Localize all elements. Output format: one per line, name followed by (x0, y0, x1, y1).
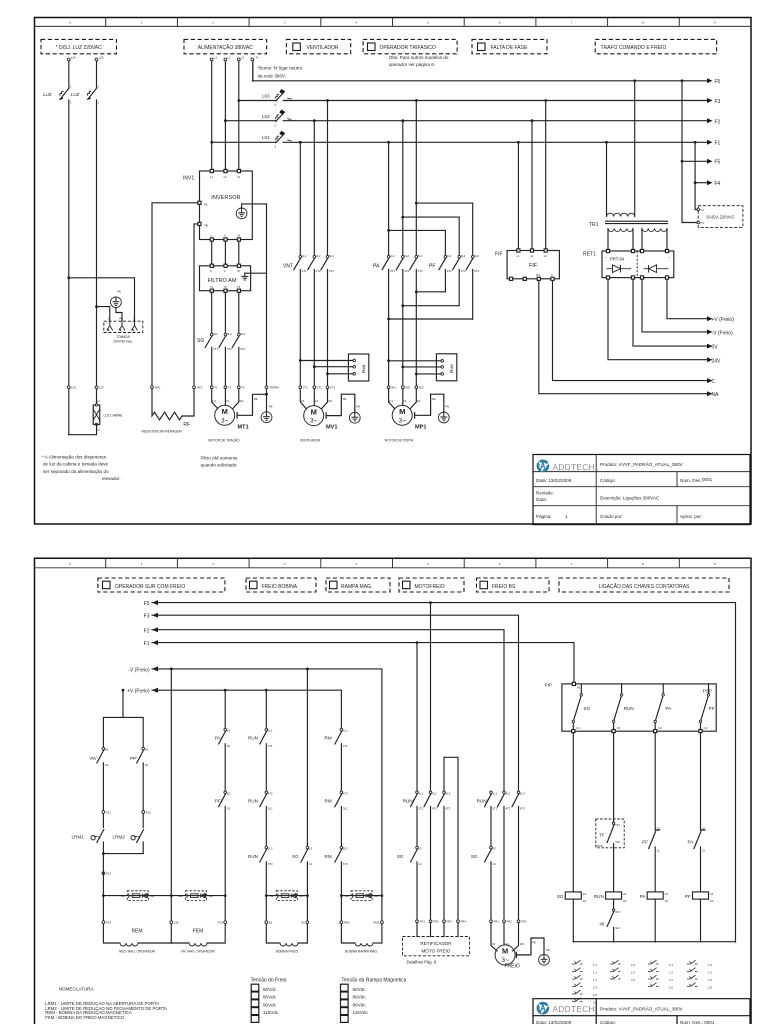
svg-text:-: - (630, 256, 631, 260)
earth at filter (241, 273, 248, 280)
svg-text:RESISTENCIA FRENAGEM: RESISTENCIA FRENAGEM (142, 430, 182, 434)
svg-text:*Borne 'N' ligar neutro: *Borne 'N' ligar neutro (258, 66, 303, 71)
svg-text:TF1: TF1 (615, 823, 620, 827)
terminal T1 (210, 386, 213, 389)
PA pole 3 (410, 101, 417, 386)
svg-text:FREIO: FREIO (505, 964, 520, 970)
pin L1 (210, 169, 213, 172)
svg-text:5L3: 5L3 (520, 791, 525, 795)
terminal FR1 (freio bs) (490, 920, 493, 923)
svg-text:3L2: 3L2 (316, 254, 321, 258)
MP1 PE link (415, 394, 444, 418)
svg-text:P13: P13 (106, 872, 111, 876)
svg-text:Descrição: Ligações 380VAC: Descrição: Ligações 380VAC (600, 496, 660, 501)
svg-text:W: W (237, 269, 240, 273)
svg-text:2T1: 2T1 (493, 807, 498, 811)
svg-text:1L1: 1L1 (268, 729, 273, 733)
arrow F5 (707, 78, 713, 83)
terminal RM1 (340, 921, 343, 924)
svg-text:90Vdc: 90Vdc (263, 1002, 277, 1007)
svg-text:40: 40 (599, 921, 605, 926)
svg-text:PP': PP' (130, 756, 137, 761)
svg-text:Produto: VVVF_PADRÃO_ATUAL_380: Produto: VVVF_PADRÃO_ATUAL_380V (600, 1006, 683, 1012)
svg-text:2.8: 2.8 (708, 986, 712, 990)
crossover PF3 to PA1 (387, 318, 390, 321)
svg-text:VENTILADOR: VENTILADOR (300, 438, 321, 442)
svg-text:4T2: 4T2 (316, 269, 321, 273)
svg-text:14: 14 (419, 862, 423, 866)
svg-text:quando solicitado.: quando solicitado. (201, 463, 238, 468)
svg-text:1: 1 (565, 514, 568, 519)
svg-text:SG: SG (292, 854, 299, 859)
relay FIF feeds (517, 141, 520, 144)
svg-text:6T3: 6T3 (329, 269, 334, 273)
svg-text:PA: PA (204, 203, 208, 207)
svg-text:VENTILADOR: VENTILADOR (307, 45, 339, 51)
svg-text:FALTA DE FASE: FALTA DE FASE (491, 45, 528, 51)
svg-text:Revisão:: Revisão: (536, 491, 554, 496)
svg-text:14: 14 (309, 862, 313, 866)
svg-text:MT1: MT1 (238, 424, 249, 430)
wire LUZ left down (68, 100, 70, 435)
svg-text:6T3: 6T3 (240, 347, 245, 351)
wire filter earth to TERRA rail (245, 272, 267, 274)
svg-text:301: 301 (391, 386, 396, 390)
dashed header box: DISJ. LUZ 220VAC (41, 39, 117, 53)
node MP tap2 (401, 366, 404, 369)
node PF pole1 branch (387, 229, 390, 232)
terminal TERRA (265, 386, 268, 389)
svg-text:FEM - BOBINA DO FREIO MAGNETIC: FEM - BOBINA DO FREIO MAGNETICO (45, 1015, 125, 1020)
svg-text:FREIO BOBINA: FREIO BOBINA (262, 584, 298, 590)
terminal 118 (170, 921, 173, 924)
svg-text:AZ: AZ (121, 894, 125, 898)
node -V to SG column (306, 668, 309, 671)
terminal 301 (387, 386, 390, 389)
svg-text:P12: P12 (146, 810, 151, 814)
ground MP1 (438, 412, 449, 423)
svg-text:F1: F1 (144, 641, 150, 647)
svg-text:INV1: INV1 (183, 176, 194, 182)
svg-text:ALIMENTAÇÃO 380VAC: ALIMENTAÇÃO 380VAC (198, 44, 253, 51)
wire down to coil bus (102, 854, 104, 896)
coil REM loop (103, 896, 120, 943)
terminal FR3 (443, 920, 446, 923)
ADDTECH logo p1 (538, 461, 548, 471)
svg-text:Detalhes Pág. 9: Detalhes Pág. 9 (407, 959, 437, 964)
svg-text:SG: SG (197, 338, 204, 344)
page 2 column index strip (35, 558, 752, 568)
terminal T3 (237, 386, 240, 389)
switch RUN in PIP (614, 684, 622, 730)
svg-text:A1: A1 (665, 892, 669, 896)
motor freio PE link (516, 938, 544, 958)
svg-text:PF: PF (709, 706, 715, 711)
svg-text:C3: C3 (658, 726, 662, 730)
wire branch to PF pole3 (416, 203, 472, 255)
node PPM tap 1 (299, 359, 302, 362)
svg-text:1.5: 1.5 (669, 978, 673, 982)
wire FIF NA out (539, 281, 707, 394)
svg-text:FIF: FIF (495, 252, 503, 258)
svg-text:T2: T2 (224, 285, 228, 289)
svg-text:2T1: 2T1 (447, 269, 452, 273)
svg-text:RET1: RET1 (583, 252, 596, 258)
svg-text:3L2: 3L2 (461, 254, 466, 258)
terminal B1 (265, 921, 268, 924)
svg-text:L3: L3 (241, 56, 245, 60)
wire split to PA' PP' (103, 690, 143, 747)
wire L1 down to inverter (211, 61, 213, 170)
svg-text:BOBINA FREIO: BOBINA FREIO (276, 950, 299, 954)
svg-text:RED. MAG. OPERADOR: RED. MAG. OPERADOR (119, 950, 155, 954)
svg-text:PF: PF (429, 264, 435, 270)
contact TF (612, 822, 614, 824)
svg-text:L26: L26 (71, 56, 76, 60)
wire to socket prong 1 (97, 307, 110, 322)
svg-text:RUN: RUN (624, 706, 634, 711)
wire +V down RUN column (265, 690, 267, 728)
svg-text:3L2: 3L2 (343, 807, 348, 811)
wire -V to coil mid (170, 668, 173, 671)
title block page 2 (533, 999, 750, 1024)
svg-text:TF2: TF2 (615, 840, 620, 844)
svg-text:SG: SG (397, 854, 404, 859)
svg-text:RM2: RM2 (373, 921, 379, 925)
ground MV1 (349, 412, 360, 423)
node F5 tap motofreio pole2 (429, 601, 432, 604)
node PPM tap 3 (326, 372, 329, 375)
svg-text:da rede 380V.: da rede 380V. (258, 74, 287, 79)
node +V to RUN column (265, 689, 268, 692)
dashed header box: VENTILADOR (286, 39, 350, 53)
svg-text:1L1: 1L1 (213, 332, 218, 336)
wire U to filter (211, 241, 213, 264)
terminal L2S (left) (67, 386, 70, 389)
svg-text:PE: PE (254, 397, 258, 401)
node VNT pole2 feed (313, 119, 316, 122)
svg-text:FR3: FR3 (521, 920, 527, 924)
coil FEM loop (171, 942, 189, 944)
SG pole 1 (205, 292, 212, 386)
VNT pole 2 (308, 121, 315, 386)
svg-text:4T2: 4T2 (615, 910, 620, 914)
wire 0V out (633, 279, 707, 346)
terminal L26 (right) (95, 58, 98, 61)
terminal P13 (102, 872, 105, 875)
svg-text:A1: A1 (583, 892, 587, 896)
svg-text:22: 22 (702, 827, 706, 831)
terminal 303 (415, 386, 418, 389)
svg-text:2.3: 2.3 (631, 963, 635, 967)
svg-text:5L3: 5L3 (329, 254, 334, 258)
svg-text:VNT: VNT (283, 264, 293, 270)
svg-text:4T2: 4T2 (268, 791, 273, 795)
arrow F2 (707, 118, 713, 123)
switch SG in PIP (573, 684, 581, 730)
svg-text:220V/3A max.: 220V/3A max. (113, 339, 133, 343)
svg-text:FR. MAG. OPERADOR: FR. MAG. OPERADOR (181, 950, 215, 954)
dashed box TF (596, 819, 624, 848)
svg-text:elevador.: elevador. (102, 476, 121, 481)
svg-text:L03: L03 (262, 93, 270, 98)
wire +V out (667, 279, 707, 318)
svg-text:V: V (224, 234, 226, 238)
dashed header box: LIGACAO DAS CHAVES CONTATORAS (559, 578, 729, 592)
VNT pole 3 (321, 101, 328, 386)
svg-text:T1: T1 (210, 285, 214, 289)
svg-text:S3: S3 (145, 748, 149, 752)
terminal P14 (102, 921, 105, 924)
svg-text:FIF: FIF (529, 263, 538, 269)
svg-text:PA: PA (665, 706, 672, 711)
wire F3 line (283, 100, 707, 102)
node VNT pole1 feed (299, 141, 302, 144)
PPM box (ventilador) (348, 354, 368, 381)
node F1 tap motofreio pole1 (416, 641, 419, 644)
node +V to PA'/PF' column (224, 689, 227, 692)
svg-text:VT2: VT2 (317, 386, 323, 390)
svg-text:A1: A1 (710, 892, 714, 896)
svg-text:Código:: Código: (600, 1020, 616, 1024)
svg-text:303: 303 (419, 386, 424, 390)
PA pole 2 (396, 121, 403, 386)
arrow C (707, 378, 713, 383)
svg-text:RUN': RUN' (403, 798, 414, 803)
svg-text:MOTOR DE PORTA: MOTOR DE PORTA (385, 438, 415, 442)
dashed header box: FREIO BOBINA (246, 578, 316, 592)
svg-text:4T2: 4T2 (461, 269, 466, 273)
svg-text:RUN: RUN (248, 854, 258, 859)
terminal N (251, 58, 254, 61)
terminal T2 (224, 386, 227, 389)
wire F5 branch down to SAIDA (682, 81, 698, 223)
svg-text:U1: U1 (301, 399, 305, 403)
wire tap1 to PPM (300, 360, 353, 362)
svg-text:* N: * N (254, 56, 258, 60)
svg-text:PFM: PFM (449, 364, 454, 373)
svg-text:RM: RM (325, 736, 332, 741)
svg-text:LUZ: LUZ (43, 92, 52, 97)
svg-text:B1: B1 (269, 921, 273, 925)
dashed header box: FALTA DE FASE (472, 39, 547, 53)
svg-text:AZ: AZ (345, 894, 349, 898)
svg-text:S2: S2 (227, 791, 231, 795)
svg-text:FR1: FR1 (494, 920, 500, 924)
diode right in PRT-04 (644, 265, 669, 273)
svg-text:Tensão do Freio: Tensão do Freio (251, 978, 287, 984)
svg-text:A2: A2 (710, 899, 714, 903)
svg-text:F5: F5 (144, 601, 150, 607)
svg-text:3L2: 3L2 (404, 254, 409, 258)
page 2 border frame (35, 558, 752, 1024)
ground motor freio (539, 954, 550, 965)
svg-text:60Vdc: 60Vdc (263, 987, 277, 992)
SAIDA 220VAC dashed box (698, 206, 743, 228)
svg-text:PF: PF (642, 839, 648, 844)
svg-text:5L3: 5L3 (268, 847, 273, 851)
svg-text:F3: F3 (715, 99, 721, 105)
svg-text:U1: U1 (389, 399, 393, 403)
node F5 arrow tap (681, 160, 684, 163)
wire C4 down (700, 733, 702, 830)
svg-text:de luz da cabina e tomada deve: de luz da cabina e tomada deve (43, 462, 109, 467)
svg-text:F2: F2 (144, 628, 150, 634)
terminal L1 inverter feed (210, 58, 213, 61)
svg-text:VT3: VT3 (330, 386, 336, 390)
svg-text:2.5: 2.5 (593, 993, 597, 997)
svg-text:14: 14 (493, 862, 497, 866)
junction left wire to socket (67, 276, 70, 279)
svg-text:4T2: 4T2 (506, 807, 511, 811)
wire -V down SG column (306, 669, 308, 846)
svg-text:Aprov. por:: Aprov. por: (680, 514, 702, 519)
svg-text:INVERSOR: INVERSOR (211, 195, 240, 201)
svg-text:-V (Freio): -V (Freio) (712, 330, 733, 336)
node PE junction (265, 393, 268, 396)
terminal 302 (401, 386, 404, 389)
svg-text:RF2: RF2 (197, 386, 203, 390)
wire to socket prong 2 (69, 278, 135, 322)
motor MT1 (215, 405, 235, 425)
terminal RF2 (193, 386, 196, 389)
svg-text:LUZ CABINE: LUZ CABINE (104, 414, 123, 418)
coil BOBINA FREIO loop (266, 896, 280, 943)
PA pole 1 (382, 142, 389, 386)
svg-text:S1: S1 (227, 807, 231, 811)
wire F5 line (from note box) (252, 80, 707, 82)
contact 40 (607, 899, 614, 942)
svg-text:1L1: 1L1 (493, 791, 498, 795)
wire PE circle to socket PE prong (116, 308, 122, 322)
wire tap2 to PPM2 (403, 366, 441, 368)
resistor RF (resistencia frenagem) (152, 389, 194, 420)
wire C3 down (654, 733, 656, 830)
svg-text:PA: PA (373, 264, 380, 270)
note box: Borne N ligar neutro (252, 61, 254, 81)
svg-text:Produto: VVVF_PADRÃO_ATUAL_380: Produto: VVVF_PADRÃO_ATUAL_380V (600, 461, 683, 467)
svg-text:2T1: 2T1 (302, 269, 307, 273)
svg-text:Filtro AM somente: Filtro AM somente (201, 456, 238, 461)
wires secondary to rectifier (608, 228, 667, 249)
svg-text:S2: S2 (227, 744, 231, 748)
svg-text:5L3: 5L3 (343, 847, 348, 851)
svg-text:* A Alimentação dos disjuntore: * A Alimentação dos disjuntores (42, 455, 107, 460)
coil BOBINA RAMPA loop (341, 896, 355, 943)
svg-text:1.6: 1.6 (708, 978, 712, 982)
switch PA in PIP (655, 684, 663, 730)
MV1 PE link (326, 394, 355, 418)
terminal FR1 (416, 920, 419, 923)
terminal VT3 (326, 386, 329, 389)
terminal RM2 (381, 921, 384, 924)
svg-text:RAMPA MAG.: RAMPA MAG. (341, 584, 372, 590)
svg-text:PE: PE (117, 289, 121, 293)
page 1 column index strip (35, 18, 752, 27)
node PPM tap 2 (313, 365, 316, 368)
svg-text:AZ: AZ (209, 894, 213, 898)
svg-text:MP1: MP1 (415, 424, 427, 430)
svg-text:T3: T3 (237, 285, 241, 289)
dashed header box: FREIO BS (477, 578, 550, 592)
svg-text:ADDTECH: ADDTECH (553, 1005, 595, 1014)
svg-text:A1: A1 (623, 892, 627, 896)
wire down to RUN' group1 pole2 (430, 603, 432, 790)
wire LUZ right down to lamp (96, 100, 98, 405)
svg-text:Núm. Des.: 0001: Núm. Des.: 0001 (680, 1020, 715, 1024)
wire L03 to breaker (239, 100, 276, 102)
motor MV1 (304, 406, 324, 426)
dashed header box: TRAFO COMANDO E FREIO (595, 39, 716, 53)
svg-text:Núm. Des.:: Núm. Des.: (680, 478, 703, 483)
pin L2 (224, 169, 227, 172)
PF pole 2 (453, 258, 460, 306)
svg-text:SG: SG (557, 894, 564, 899)
svg-text:1.2: 1.2 (593, 971, 597, 975)
svg-text:LIGAÇÃO DAS CHAVES CONTATORAS: LIGAÇÃO DAS CHAVES CONTATORAS (599, 583, 690, 590)
svg-text:P15: P15 (218, 921, 223, 925)
wire C2 down (613, 733, 615, 822)
svg-text:L01: L01 (262, 135, 270, 140)
svg-text:5L3: 5L3 (418, 254, 423, 258)
svg-text:13: 13 (419, 847, 423, 851)
svg-text:VT1: VT1 (303, 386, 309, 390)
svg-text:LRM1: LRM1 (72, 834, 85, 839)
svg-text:5L3: 5L3 (474, 254, 479, 258)
svg-text:C4: C4 (704, 726, 708, 730)
svg-text:PA': PA' (90, 756, 97, 761)
svg-text:L26: L26 (99, 56, 104, 60)
svg-text:13: 13 (309, 847, 313, 851)
pin PB (198, 222, 201, 225)
crossover PF1 to PA3 (415, 290, 418, 293)
svg-text:Página:: Página: (536, 514, 552, 519)
transformer TR1 feeds (605, 141, 608, 144)
svg-text:TRAFO COMANDO E FREIO: TRAFO COMANDO E FREIO (601, 45, 667, 51)
svg-text:1L1: 1L1 (302, 254, 307, 258)
svg-text:Criado por:: Criado por: (600, 514, 623, 519)
pin PA (198, 201, 201, 204)
svg-text:RUN: RUN (248, 798, 258, 803)
svg-text:SG: SG (584, 706, 591, 711)
retificador moto freio dashed box (403, 937, 470, 956)
arrow F1 (707, 140, 713, 145)
svg-text:NA: NA (712, 392, 720, 398)
svg-text:L2: L2 (530, 254, 534, 258)
svg-text:118: 118 (174, 921, 179, 925)
svg-text:L1: L1 (210, 175, 214, 179)
svg-text:W: W (238, 234, 241, 238)
junction right wire to socket (95, 305, 98, 308)
wire down to RUN' group1 pole1 (416, 643, 418, 790)
coil bus RAMPA (341, 895, 382, 897)
svg-text:F4: F4 (701, 208, 705, 212)
svg-text:FR1: FR1 (420, 920, 426, 924)
svg-text:B2: B2 (301, 921, 305, 925)
svg-text:RM1: RM1 (344, 921, 350, 925)
node L02 tap (224, 119, 227, 122)
svg-text:6T3: 6T3 (418, 269, 423, 273)
svg-text:LUZ: LUZ (71, 92, 80, 97)
MT1 PE link (237, 394, 266, 418)
node F5 to saida branch (681, 79, 684, 82)
node MP tap1 (387, 359, 390, 362)
svg-text:3L2: 3L2 (506, 791, 511, 795)
svg-text:13: 13 (493, 847, 497, 851)
svg-text:T2: T2 (228, 386, 232, 390)
ground inside inverter (236, 208, 247, 219)
terminal FR2 (429, 920, 432, 923)
